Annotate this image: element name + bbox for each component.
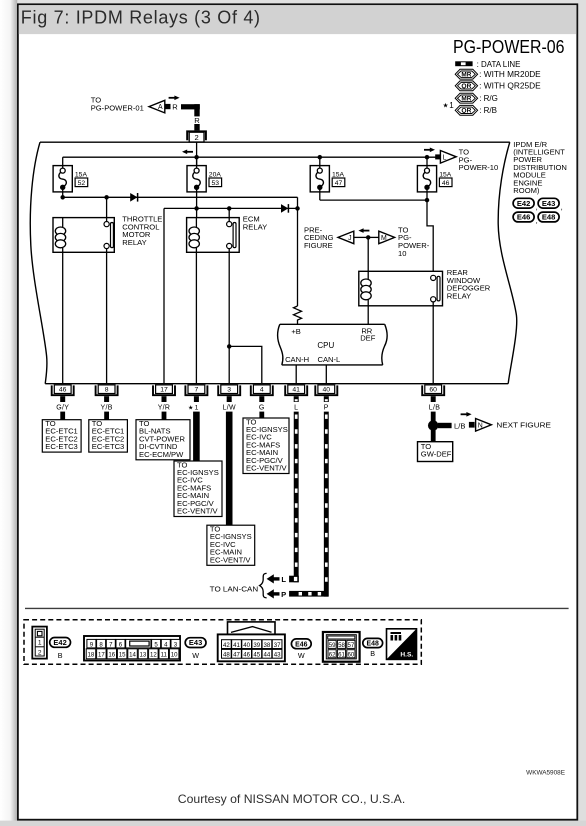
label L arrow xyxy=(281,575,286,584)
svg-text:14: 14 xyxy=(129,652,136,659)
svg-text:NEXT FIGURE: NEXT FIGURE xyxy=(496,421,551,430)
svg-text:37: 37 xyxy=(274,642,281,649)
stub after A xyxy=(165,104,171,109)
legend hexagon MR20DE xyxy=(455,69,541,79)
ECM relay contact xyxy=(227,208,236,252)
svg-text:TO LAN-CAN: TO LAN-CAN xyxy=(210,585,259,594)
wire color label L xyxy=(294,404,298,411)
CPU box xyxy=(277,324,387,365)
svg-text:+B: +B xyxy=(291,327,301,336)
main power bus xyxy=(63,156,441,158)
svg-text:40: 40 xyxy=(323,387,331,394)
H.S. emblem xyxy=(387,629,417,660)
svg-text:Fig 7: IPDM Relays (3 Of 4): Fig 7: IPDM Relays (3 Of 4) xyxy=(21,8,261,28)
wire junction to M xyxy=(368,236,379,238)
wire color label G/Y xyxy=(56,404,69,411)
svg-text:10: 10 xyxy=(171,652,178,659)
svg-text:QR: QR xyxy=(461,108,471,115)
label TO PG-POWER-01 xyxy=(91,96,144,113)
junction pin3 branch xyxy=(227,344,231,348)
svg-text:10: 10 xyxy=(398,249,406,258)
wire junction to defogger coil xyxy=(367,237,369,271)
svg-text:EC-VENT/V: EC-VENT/V xyxy=(177,507,218,516)
wire bus to fuse 46 xyxy=(426,157,428,168)
svg-text:52: 52 xyxy=(78,180,86,187)
svg-text:CAN-H: CAN-H xyxy=(285,355,309,364)
svg-text:57: 57 xyxy=(348,642,355,649)
module label IPDM E/R xyxy=(513,140,567,195)
junction J/M xyxy=(366,235,370,239)
wire color label G xyxy=(259,404,265,411)
svg-text:: WITH MR20DE: : WITH MR20DE xyxy=(479,70,541,79)
svg-text:L/B: L/B xyxy=(429,404,440,411)
module pin 8 xyxy=(96,385,118,402)
svg-text:2: 2 xyxy=(194,133,198,142)
module pin 17 xyxy=(153,385,175,402)
sheet code PG-POWER-06 xyxy=(453,36,565,57)
wire fuse 52 to node xyxy=(62,187,64,197)
svg-text:1: 1 xyxy=(38,640,42,647)
legend hexagon MR R/G xyxy=(455,93,498,103)
wire stub xyxy=(259,412,264,420)
wire fuse 47 down xyxy=(319,187,321,200)
junction L/B xyxy=(428,420,438,430)
svg-text:E46: E46 xyxy=(295,639,307,648)
oval E42 xyxy=(50,638,71,660)
resistor R1 xyxy=(294,306,302,324)
svg-text:MR: MR xyxy=(461,96,471,103)
wire label R (vertical) xyxy=(194,116,200,125)
wire CAN-L to pin 40 xyxy=(325,365,327,384)
wire bus to fuse 47 xyxy=(319,157,321,168)
wire color label P xyxy=(324,404,329,411)
svg-text:7: 7 xyxy=(195,387,199,394)
svg-text:,: , xyxy=(561,202,563,211)
svg-text:B: B xyxy=(370,649,375,658)
module connector ovals xyxy=(513,198,563,225)
svg-text:P: P xyxy=(324,404,329,411)
svg-text:R: R xyxy=(194,116,200,125)
svg-text:R: R xyxy=(172,102,178,111)
wire node A down xyxy=(297,197,299,306)
svg-text:44: 44 xyxy=(264,652,271,659)
data line P (pin 40) xyxy=(324,412,329,597)
fuse 15A 47 xyxy=(310,166,345,192)
courtesy line xyxy=(178,792,406,806)
svg-text:L: L xyxy=(294,404,298,411)
thick wire pin 3 xyxy=(226,412,233,526)
wire throttle coil to pin 46 xyxy=(62,252,64,383)
direction arrow right (N) xyxy=(461,412,472,417)
svg-text:QR: QR xyxy=(461,83,471,90)
svg-text:41: 41 xyxy=(233,642,240,649)
wire fuse 46 down xyxy=(426,187,428,200)
module pin 46 xyxy=(52,385,74,402)
svg-text:Courtesy of NISSAN MOTOR CO.,: Courtesy of NISSAN MOTOR CO., U.S.A. xyxy=(178,792,406,806)
svg-text:PG-POWER-06: PG-POWER-06 xyxy=(453,36,565,57)
module pin 41 xyxy=(285,385,307,402)
svg-text:E48: E48 xyxy=(542,213,556,222)
svg-text:61: 61 xyxy=(338,651,345,658)
direction arrow left (J/M) xyxy=(358,228,369,233)
direction arrow right before L xyxy=(424,148,435,153)
line B horizontal xyxy=(164,207,298,209)
diode D1 xyxy=(130,193,137,202)
svg-text:H.S.: H.S. xyxy=(400,651,413,658)
junction contact throttle xyxy=(104,195,108,199)
svg-text:8: 8 xyxy=(105,387,109,394)
legend hexagon QR25DE xyxy=(455,81,541,91)
svg-text:L/W: L/W xyxy=(223,404,236,411)
svg-text:EC-ECM/PW: EC-ECM/PW xyxy=(139,450,184,459)
oval E46 xyxy=(291,639,311,660)
svg-text:: R/B: : R/B xyxy=(479,106,497,115)
thick power wire from A to connector 2 xyxy=(181,104,200,116)
fuse 15A 52 xyxy=(53,166,88,192)
svg-text:: WITH QR25DE: : WITH QR25DE xyxy=(479,81,541,90)
data stub dash 41 xyxy=(295,399,298,401)
box TO EC-ETC pin8 xyxy=(89,419,128,452)
svg-text:★: ★ xyxy=(188,404,194,411)
svg-text:43: 43 xyxy=(274,652,281,659)
label TO PG-POWER-10 (top) xyxy=(459,148,499,172)
svg-text:G/Y: G/Y xyxy=(56,404,69,411)
junction ECM contact xyxy=(227,206,231,210)
svg-text:16: 16 xyxy=(108,652,115,659)
svg-text:G: G xyxy=(259,404,265,411)
wire label R (horizontal) xyxy=(172,102,178,111)
drawing number xyxy=(526,769,565,776)
svg-text:15: 15 xyxy=(119,652,126,659)
svg-text:RELAY: RELAY xyxy=(243,222,267,231)
legend star1 note xyxy=(443,101,455,110)
svg-text:N: N xyxy=(478,422,483,429)
svg-text:MR: MR xyxy=(461,72,471,79)
svg-text:Y/R: Y/R xyxy=(158,404,171,411)
ECM relay coil xyxy=(189,208,199,252)
wire bus to fuse 52 xyxy=(62,157,64,168)
defogger relay contact xyxy=(431,275,440,306)
svg-text:42: 42 xyxy=(223,642,230,649)
box TO GW-DEF xyxy=(418,442,453,462)
svg-text:CPU: CPU xyxy=(317,341,334,350)
svg-text:E43: E43 xyxy=(189,638,202,647)
legend hexagon QR R/B xyxy=(455,105,497,115)
wire defogger coil to CPU xyxy=(367,306,369,325)
svg-text:DEF: DEF xyxy=(360,334,376,343)
stub before N xyxy=(469,422,475,428)
fuse 15A 46 xyxy=(417,166,452,192)
defogger relay label xyxy=(447,268,491,300)
wire label L/B (branch) xyxy=(454,421,465,430)
svg-text:17: 17 xyxy=(98,652,105,659)
junction node B xyxy=(295,206,299,210)
thick wire pin 7 xyxy=(193,412,200,461)
ECM relay label xyxy=(243,215,267,232)
wire stub xyxy=(162,412,167,420)
connector 2 xyxy=(187,131,206,142)
svg-text:59: 59 xyxy=(329,642,336,649)
oval E43 xyxy=(185,638,206,660)
svg-text:1: 1 xyxy=(195,405,199,412)
wire ECM coil to pin 7 xyxy=(195,252,197,383)
svg-text:E42: E42 xyxy=(53,638,66,647)
wire stub xyxy=(60,412,65,420)
svg-text:L: L xyxy=(281,575,286,584)
svg-text:41: 41 xyxy=(292,387,300,394)
wire throttle contact to pin 8 xyxy=(106,252,108,383)
svg-text:18: 18 xyxy=(88,652,95,659)
brace LAN-CAN xyxy=(260,573,267,597)
svg-text:60: 60 xyxy=(348,651,355,658)
module pin 3 xyxy=(218,385,240,402)
junction ECM coil xyxy=(194,206,198,210)
svg-text:E46: E46 xyxy=(517,213,531,222)
svg-text:62: 62 xyxy=(329,651,336,658)
svg-text:RELAY: RELAY xyxy=(122,238,146,247)
svg-text:RELAY: RELAY xyxy=(447,291,471,300)
svg-text:38: 38 xyxy=(264,642,271,649)
arrow LAN-CAN L xyxy=(267,574,280,583)
svg-text:48: 48 xyxy=(223,652,230,659)
label TO PG-POWER-10 (mid) xyxy=(398,225,430,257)
throttle relay contact xyxy=(104,197,113,252)
wire branch to pin 4 xyxy=(229,346,262,383)
label P arrow xyxy=(281,590,286,599)
svg-text:L/B: L/B xyxy=(454,421,465,430)
svg-text:17: 17 xyxy=(160,387,168,394)
svg-text:FIGURE: FIGURE xyxy=(304,241,333,250)
module pin 60 xyxy=(422,385,444,402)
svg-text:47: 47 xyxy=(233,652,240,659)
box TO EC-IGNSYS pin7 xyxy=(174,460,222,516)
svg-text:GW-DEF: GW-DEF xyxy=(421,450,452,459)
wire connector2 to bus xyxy=(196,142,198,166)
svg-text:EC-VENT/V: EC-VENT/V xyxy=(210,555,251,564)
separator line xyxy=(25,607,569,609)
svg-text:★: ★ xyxy=(443,103,449,110)
module pin 40 xyxy=(315,385,337,402)
connector view dashed border xyxy=(24,620,421,665)
module pin 4 xyxy=(251,385,273,402)
svg-text:J: J xyxy=(348,235,351,242)
svg-text:11: 11 xyxy=(161,652,168,659)
svg-text:4: 4 xyxy=(260,387,264,394)
svg-text:39: 39 xyxy=(253,642,260,649)
arrow LAN-CAN P xyxy=(267,589,280,598)
svg-text:1: 1 xyxy=(449,101,454,110)
label PRECEDING FIGURE xyxy=(304,225,334,250)
wire color label Y/B xyxy=(101,404,113,411)
bus junction at fuse 47 xyxy=(318,155,322,159)
throttle control motor relay box xyxy=(53,218,114,253)
wire ECM contact down xyxy=(228,252,230,383)
box TO EC-IGNSYS pin4 xyxy=(243,417,289,473)
label NEXT FIGURE xyxy=(496,421,551,430)
svg-text:12: 12 xyxy=(150,652,157,659)
thick wire pin 60 xyxy=(431,412,436,422)
triangle connector M xyxy=(379,231,395,244)
svg-text:46: 46 xyxy=(59,387,67,394)
svg-text:PG-POWER-01: PG-POWER-01 xyxy=(91,103,144,112)
CPU pin labels xyxy=(285,326,376,364)
rear window defogger relay box xyxy=(359,271,443,306)
svg-text:P: P xyxy=(281,590,286,599)
data line L corner xyxy=(289,576,299,583)
svg-text:46: 46 xyxy=(243,652,250,659)
svg-text:W: W xyxy=(192,651,199,660)
direction arrow right (top) xyxy=(169,96,180,101)
branch stub L/B right xyxy=(438,423,452,428)
svg-text:EC-ETC3: EC-ETC3 xyxy=(92,442,125,451)
label TO LAN-CAN xyxy=(210,585,259,594)
defogger relay coil xyxy=(361,271,371,306)
IPDM E/R module outline xyxy=(30,142,516,384)
svg-text:B: B xyxy=(58,651,63,660)
data line P corner xyxy=(289,591,328,597)
line A horizontal xyxy=(63,196,298,198)
svg-text:Y/B: Y/B xyxy=(101,404,113,411)
svg-text:L: L xyxy=(443,154,447,161)
svg-text:EC-ETC3: EC-ETC3 xyxy=(45,442,78,451)
wire line B to pin 17 xyxy=(163,208,165,383)
wire bus to fuse 53 xyxy=(196,157,198,168)
box TO EC-ETC pin46 xyxy=(42,419,81,452)
svg-text:POWER-10: POWER-10 xyxy=(459,163,499,172)
connector E42 drawing xyxy=(32,627,47,659)
triangle connector L xyxy=(440,151,456,164)
svg-text:53: 53 xyxy=(212,180,220,187)
module pin 7 xyxy=(185,385,207,402)
diode D2 xyxy=(281,204,288,213)
legend data line symbol xyxy=(455,60,520,69)
wire color label L/B xyxy=(429,404,440,411)
svg-text:13: 13 xyxy=(140,652,147,659)
svg-text:2: 2 xyxy=(38,649,42,656)
box TO BL-NATS pin17 xyxy=(136,419,190,460)
triangle connector J xyxy=(338,231,354,244)
svg-text:46: 46 xyxy=(442,180,450,187)
direction arrow left near connector 2 xyxy=(182,150,193,155)
svg-text:3: 3 xyxy=(227,387,231,394)
figure title bar xyxy=(19,5,577,34)
svg-text:: DATA LINE: : DATA LINE xyxy=(477,60,521,69)
svg-text:A: A xyxy=(158,104,163,111)
junction fuse 46 line xyxy=(425,198,429,202)
svg-text:W: W xyxy=(298,651,305,660)
connector E48 drawing xyxy=(323,632,360,662)
wire to defogger contact xyxy=(427,200,433,275)
svg-text:47: 47 xyxy=(335,180,343,187)
triangle connector N xyxy=(476,419,492,432)
triangle connector A xyxy=(149,100,165,113)
wire color label L/W xyxy=(223,404,236,411)
wire fuse 53 to line B xyxy=(196,187,198,208)
bus junction at fuse 46 xyxy=(425,155,429,159)
svg-text:E42: E42 xyxy=(517,199,531,208)
svg-text:CAN-L: CAN-L xyxy=(318,355,341,364)
svg-text:EC-VENT/V: EC-VENT/V xyxy=(246,464,287,473)
fuse 20A 53 xyxy=(187,166,222,192)
svg-text:E43: E43 xyxy=(542,199,556,208)
wire color label *1 xyxy=(188,404,199,411)
svg-text:ROOM): ROOM) xyxy=(513,186,540,195)
wire stub xyxy=(104,412,109,420)
connector 2 stub xyxy=(194,124,199,130)
data line L (pin 41) xyxy=(294,412,299,583)
connector E46 drawing xyxy=(218,622,285,661)
svg-text:E48: E48 xyxy=(367,639,379,648)
throttle relay coil xyxy=(55,218,65,253)
junction coil throttle xyxy=(61,195,65,199)
bus junction at connector 2 xyxy=(194,155,198,159)
data stub dash 40 xyxy=(325,399,328,401)
svg-text:WKWA5908E: WKWA5908E xyxy=(526,769,565,776)
wire defogger contact to pin 60 xyxy=(432,306,434,384)
svg-text:58: 58 xyxy=(338,642,345,649)
throttle relay label xyxy=(122,215,162,247)
line fuse47 to fuse46 xyxy=(320,199,427,201)
oval E48 xyxy=(363,638,383,658)
box TO EC-IGNSYS pin3 xyxy=(207,525,255,566)
svg-text:40: 40 xyxy=(243,642,250,649)
ECM relay box xyxy=(187,218,240,253)
connector E43 drawing xyxy=(84,636,180,661)
wire color label Y/R xyxy=(158,404,171,411)
svg-text:9: 9 xyxy=(90,641,94,648)
svg-text:60: 60 xyxy=(429,387,437,394)
svg-text:M: M xyxy=(381,235,387,242)
stub before L xyxy=(435,154,440,159)
svg-text:45: 45 xyxy=(253,652,260,659)
wire junction to GW-DEF xyxy=(431,430,436,442)
wire J to junction xyxy=(354,236,368,238)
wire CAN-H to pin 41 xyxy=(295,365,297,384)
svg-text:: R/G: : R/G xyxy=(479,94,498,103)
